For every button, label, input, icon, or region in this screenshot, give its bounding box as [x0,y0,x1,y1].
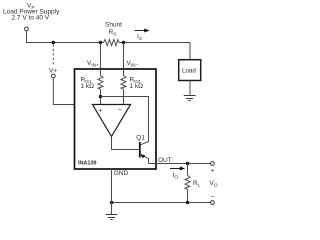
junction dot shunt right [122,41,125,44]
junction dot RL bottom [186,201,189,204]
svg-text:IS: IS [137,34,142,43]
resistor RG1 [81,69,104,105]
junction dot GND rail [110,201,113,204]
wire bottom rail [112,202,211,204]
svg-text:2.7 V to 40 V: 2.7 V to 40 V [12,15,50,22]
wire V+ to box [53,78,74,105]
svg-text:INA139: INA139 [78,161,96,167]
transistor Q1 [136,135,148,164]
current arrow IO [170,167,185,181]
op-amp U1 [93,105,131,137]
emitter with arrow [141,155,149,164]
junction dot shunt left [99,41,102,44]
IC box INA139 [75,69,157,169]
wire load to ground [189,81,191,96]
svg-text:VIN−: VIN− [127,60,139,69]
svg-text:Shunt: Shunt [105,22,122,29]
label Shunt RS [105,22,122,38]
svg-text:Load: Load [182,68,196,75]
load box [179,60,201,81]
svg-text:GND: GND [114,170,129,177]
svg-text:1 kΩ: 1 kΩ [130,83,144,90]
junction dot VP/V+ [52,41,55,44]
svg-text:−: − [118,107,122,114]
svg-text:RS: RS [109,29,117,38]
svg-text:VIN+: VIN+ [87,60,99,69]
junction dot OUT/RL [186,162,189,165]
wire top rail right [119,42,190,44]
wire pin VIN+ [100,43,102,70]
svg-text:+: + [211,168,215,175]
node VP supply label [3,3,60,22]
wire top rail left [26,42,104,44]
svg-text:−: − [211,194,215,201]
svg-text:VO: VO [210,180,218,189]
terminal VP [25,27,29,31]
wire VP down [26,31,28,43]
svg-text:+: + [98,107,102,114]
wire OUT [149,163,211,165]
svg-text:1 kΩ: 1 kΩ [81,83,95,90]
svg-text:IO: IO [173,172,179,181]
resistor RL [185,164,201,203]
terminal VO- [211,201,215,205]
wire GND pin [111,169,113,215]
terminal V+ [51,74,55,78]
wire load supply down [189,43,191,60]
resistor RG2 [121,69,143,105]
ground symbol (load) [184,96,196,101]
svg-text:OUT: OUT [158,157,172,164]
terminal VO+ [211,162,215,166]
wire op-amp output to base [112,137,140,150]
svg-text:RL: RL [193,180,201,189]
junction dot op-amp +input [99,95,102,98]
current arrow IS [135,29,150,43]
svg-text:V+: V+ [49,68,57,75]
dashed wire to V+ [52,45,54,67]
wire feedback to Q1 collector [101,97,149,145]
wire pin VIN- [123,43,125,70]
ground symbol (GND) [106,215,118,220]
svg-text:Q1: Q1 [136,135,145,142]
resistor RS (shunt) [104,40,119,46]
